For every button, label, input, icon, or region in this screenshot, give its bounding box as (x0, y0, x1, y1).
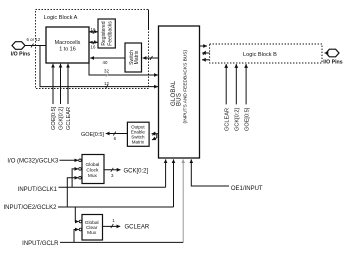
svg-text:I/O Pins: I/O Pins (323, 59, 342, 65)
svg-text:INPUT/OE2/GCLK2: INPUT/OE2/GCLK2 (3, 205, 57, 211)
svg-text:GCK[0:2]: GCK[0:2] (235, 108, 241, 131)
svg-text:6 or 12: 6 or 12 (27, 37, 41, 42)
svg-text:Mux: Mux (87, 230, 97, 236)
svg-text:1 to 16: 1 to 16 (59, 47, 76, 53)
svg-text:Matrix: Matrix (134, 50, 140, 64)
svg-text:16: 16 (91, 45, 96, 50)
svg-text:GCLEAR: GCLEAR (66, 107, 72, 130)
svg-text:Clock: Clock (86, 167, 99, 173)
svg-text:OE1/INPUT: OE1/INPUT (231, 186, 263, 192)
svg-text:1: 1 (112, 218, 115, 223)
svg-text:Logic Block B: Logic Block B (243, 52, 277, 58)
svg-text:(INPUTS AND FEEDBACKS BUS): (INPUTS AND FEEDBACKS BUS) (182, 50, 188, 124)
svg-text:Macrocells: Macrocells (55, 40, 81, 46)
svg-text:INPUT/GCLR: INPUT/GCLR (22, 241, 59, 247)
svg-text:Mux: Mux (88, 173, 98, 179)
svg-text:Registered: Registered (101, 21, 107, 45)
svg-text:40: 40 (103, 60, 108, 65)
svg-text:GCLEAR: GCLEAR (224, 108, 230, 131)
svg-text:Global: Global (85, 162, 99, 168)
svg-text:GOE[0:5]: GOE[0:5] (244, 107, 250, 131)
svg-text:12: 12 (104, 81, 109, 86)
svg-text:3: 3 (111, 173, 114, 178)
svg-text:GCK[0:2]: GCK[0:2] (124, 169, 149, 175)
svg-text:Global: Global (85, 220, 99, 226)
svg-text:GOE[0:5]: GOE[0:5] (51, 106, 57, 130)
svg-text:GOE[0:5]: GOE[0:5] (81, 132, 104, 138)
svg-text:GCLEAR: GCLEAR (125, 224, 150, 230)
svg-text:Logic Block A: Logic Block A (44, 15, 78, 21)
svg-text:GCK[0:2]: GCK[0:2] (59, 107, 65, 130)
svg-text:Clear: Clear (86, 225, 98, 231)
svg-text:INPUT/GCLK1: INPUT/GCLK1 (18, 187, 58, 193)
svg-text:6: 6 (114, 136, 117, 141)
svg-text:Matrix: Matrix (132, 140, 145, 145)
svg-text:BUS: BUS (177, 93, 183, 106)
svg-text:16: 16 (91, 27, 96, 32)
svg-text:Feedbacks: Feedbacks (108, 21, 114, 46)
svg-text:I/O (MC32)/GCLK3: I/O (MC32)/GCLK3 (7, 158, 59, 164)
svg-text:I/O Pins: I/O Pins (11, 52, 30, 58)
svg-text:32: 32 (104, 69, 109, 74)
